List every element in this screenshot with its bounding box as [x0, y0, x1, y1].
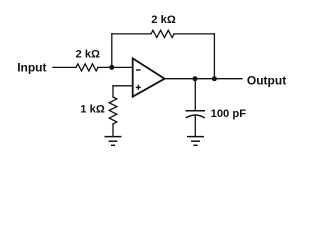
- svg-text:100 pF: 100 pF: [211, 108, 247, 120]
- svg-text:Output: Output: [247, 73, 286, 87]
- svg-text:Input: Input: [17, 61, 46, 75]
- svg-text:2 kΩ: 2 kΩ: [76, 48, 101, 60]
- svg-text:2 kΩ: 2 kΩ: [151, 14, 176, 26]
- svg-text:1 kΩ: 1 kΩ: [80, 103, 105, 115]
